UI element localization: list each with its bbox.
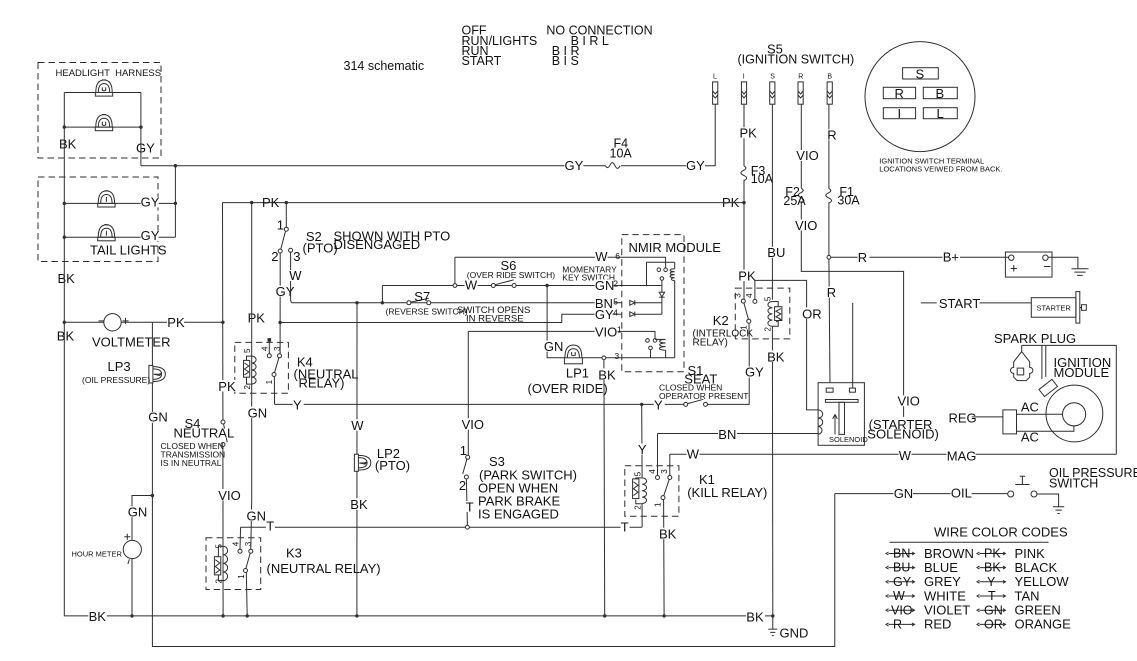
switch S2 pin1	[284, 227, 288, 231]
junction K1 BK	[662, 614, 665, 617]
svg-text:314 schematic: 314 schematic	[344, 59, 425, 73]
code PK	[977, 546, 1045, 561]
svg-text:Y: Y	[293, 398, 302, 413]
wire headlight lamp 2	[64, 126, 141, 128]
svg-text:REG: REG	[949, 410, 977, 425]
switch S4	[221, 420, 227, 447]
svg-text:BK: BK	[984, 561, 1001, 575]
solenoid terminal R	[826, 388, 833, 392]
label W S6	[465, 278, 478, 293]
svg-text:MAG: MAG	[947, 448, 977, 463]
wire solenoid second terminal	[852, 303, 854, 388]
svg-text:GN: GN	[128, 505, 148, 520]
junction headlight left	[63, 125, 66, 128]
junction GY branch	[278, 321, 281, 324]
wire W S2 pin3 down	[290, 252, 293, 302]
svg-text:W: W	[351, 418, 364, 433]
label BK bottom left	[88, 609, 107, 624]
ground GND symbol	[768, 616, 777, 636]
label B+	[943, 250, 961, 265]
svg-text:3: 3	[615, 351, 620, 361]
relay K2 contact pin4	[753, 299, 757, 303]
junction PK bus voltmeter	[221, 321, 224, 324]
wire W pin6 run	[455, 256, 622, 258]
label W LP2	[351, 418, 364, 433]
svg-text:VIO: VIO	[898, 394, 920, 409]
color codes rule	[890, 541, 1049, 543]
svg-text:PK: PK	[218, 379, 236, 394]
label Y left	[293, 398, 304, 413]
code W	[886, 588, 966, 603]
svg-text:2: 2	[613, 279, 618, 289]
svg-text:GN: GN	[544, 339, 564, 354]
svg-text:2: 2	[459, 478, 466, 493]
svg-text:W: W	[595, 249, 608, 264]
relay K4 coil	[244, 356, 257, 384]
label Y K1	[638, 442, 649, 457]
wire REG	[972, 416, 1003, 418]
wire pin S BU down to K2 coil	[771, 104, 773, 300]
svg-text:IS ENGAGED: IS ENGAGED	[478, 507, 559, 522]
relay K2 contact pin3	[741, 299, 745, 303]
svg-text:(REVERSE SWITCH): (REVERSE SWITCH)	[386, 306, 468, 316]
label BN pin5	[595, 296, 614, 311]
wire T line K3 pin4 riser	[239, 527, 242, 549]
svg-text:IS IN NEUTRAL: IS IN NEUTRAL	[161, 458, 222, 468]
wire T run K3 to K1	[241, 526, 642, 528]
svg-text:W: W	[899, 448, 912, 463]
svg-text:VIO: VIO	[795, 218, 817, 233]
label GY pin4	[595, 307, 614, 322]
label START	[939, 296, 981, 311]
lamp LP3	[149, 365, 165, 383]
connector BK LP1	[602, 356, 606, 360]
svg-text:(PTO): (PTO)	[303, 241, 338, 256]
junction GN LP1 branch	[545, 284, 548, 287]
svg-text:3: 3	[273, 346, 282, 351]
svg-text:5: 5	[764, 296, 773, 301]
svg-text:GY: GY	[141, 194, 160, 209]
label VIO S3	[461, 417, 484, 432]
code VIO	[886, 603, 970, 618]
svg-text:PK: PK	[738, 269, 756, 284]
svg-text:OR: OR	[984, 618, 1003, 632]
connector S5 pin S	[770, 82, 775, 104]
code OR	[977, 617, 1071, 632]
svg-text:START: START	[939, 296, 980, 311]
svg-text:RED: RED	[924, 617, 951, 632]
relay K4 moving contact	[272, 373, 276, 377]
svg-text:5: 5	[613, 297, 618, 307]
svg-text:10A: 10A	[610, 147, 633, 161]
svg-text:HOUR METER: HOUR METER	[72, 550, 123, 559]
code GN	[977, 603, 1061, 618]
svg-text:BK: BK	[767, 349, 785, 364]
label VIO K3 coil wire	[218, 488, 241, 503]
svg-text:2: 2	[764, 327, 773, 332]
spark plug symbol	[1011, 345, 1033, 380]
wire Y run to S1	[275, 403, 684, 405]
NMIR internal diode down	[659, 286, 664, 302]
junction Y BN branch	[640, 403, 643, 406]
wire AC upper	[1017, 413, 1063, 415]
svg-text:SPARK PLUG: SPARK PLUG	[994, 331, 1076, 346]
wire VIO down to S3	[467, 331, 469, 455]
lamp headlight 2	[95, 115, 112, 131]
svg-text:6: 6	[615, 251, 620, 261]
junction GN hourmeter branch	[151, 494, 154, 497]
svg-text:4: 4	[232, 541, 241, 546]
svg-text:4: 4	[648, 469, 657, 474]
svg-text:(KILL RELAY): (KILL RELAY)	[687, 485, 767, 500]
NMIR internal contacts upper	[657, 268, 667, 286]
lamp LP2	[354, 454, 370, 471]
label PK pin I	[740, 125, 758, 140]
wire S2 pin1	[285, 203, 287, 228]
NMIR internal diode GY	[630, 312, 662, 317]
wire K2 pin4 drop	[754, 280, 756, 299]
svg-text:TAIL LIGHTS: TAIL LIGHTS	[90, 243, 167, 258]
svg-text:DISENGAGED: DISENGAGED	[334, 237, 421, 252]
junction tail1 right	[174, 202, 177, 205]
label GN LP3 wire	[148, 410, 168, 425]
svg-text:GY: GY	[745, 364, 764, 379]
label BN solenoid	[718, 427, 737, 442]
svg-text:ORANGE: ORANGE	[1015, 617, 1072, 632]
svg-text:GN: GN	[595, 278, 615, 293]
relay K3 blade	[246, 553, 250, 569]
wire K2 coil to BK GND	[771, 326, 773, 616]
relay K3 contact pin4	[238, 549, 242, 553]
relay K1 enclosure (dashed)	[625, 466, 679, 517]
svg-text:PK: PK	[740, 125, 758, 140]
connector node B+ tap	[827, 255, 831, 259]
relay K4 enclosure (dashed)	[235, 342, 289, 393]
label R on B+ wire	[858, 250, 870, 265]
fuse F2	[798, 188, 804, 203]
svg-text:MODULE: MODULE	[1054, 365, 1110, 380]
wire GN from LP3 down	[152, 322, 834, 646]
svg-text:GY: GY	[141, 228, 160, 243]
relay K4 blade	[275, 358, 279, 373]
svg-text:5: 5	[633, 471, 642, 476]
svg-text:1: 1	[265, 379, 274, 384]
wire W S6 run to NMIR pin2	[382, 285, 622, 287]
svg-text:GN: GN	[894, 486, 914, 501]
wire K1 coil to T	[641, 504, 643, 528]
NMIR internal coil upper	[670, 269, 675, 358]
svg-text:L: L	[713, 74, 717, 81]
fuse F4	[606, 163, 621, 169]
svg-text:PK: PK	[167, 315, 185, 330]
wire tail lamp 1 GY	[64, 202, 175, 204]
wire BN K1 to solenoid	[658, 433, 819, 435]
svg-text:LP1: LP1	[566, 366, 589, 381]
hour meter M3	[123, 540, 141, 558]
switch S7	[407, 298, 431, 304]
svg-text:W: W	[289, 268, 302, 283]
label GY S2	[275, 284, 294, 299]
svg-text:4: 4	[260, 346, 269, 351]
label GY K2 pin1 wire	[745, 364, 764, 379]
terminal I box	[883, 108, 915, 119]
wire Y to K1 coil	[641, 404, 643, 477]
junction PK bus / pin I	[742, 201, 745, 204]
starter M1	[1031, 292, 1086, 324]
svg-text:BLUE: BLUE	[924, 560, 958, 575]
svg-text:I: I	[743, 74, 745, 81]
svg-text:T: T	[988, 589, 996, 603]
svg-text:GY: GY	[276, 284, 295, 299]
code BU	[886, 560, 958, 575]
relay K3 coil	[214, 546, 227, 580]
svg-text:BROWN: BROWN	[924, 546, 974, 561]
ignition module enclosure	[1046, 345, 1117, 454]
svg-text:R: R	[893, 618, 902, 632]
svg-text:S: S	[770, 74, 775, 81]
svg-text:AC: AC	[1021, 399, 1039, 414]
junction hour meter BK	[130, 614, 133, 617]
label R below B+ tap	[827, 285, 839, 300]
svg-text:RELAY): RELAY)	[299, 376, 345, 391]
svg-text:PK: PK	[984, 547, 1001, 561]
svg-text:GREEN: GREEN	[1015, 603, 1061, 618]
label GN hour meter	[128, 505, 148, 520]
NMIR module enclosure (dashed)	[622, 235, 684, 372]
svg-text:GN: GN	[148, 410, 168, 425]
wire W pin6 branch	[454, 257, 456, 284]
wire hour meter branch	[132, 496, 152, 541]
svg-text:SOLENOID: SOLENOID	[829, 435, 868, 444]
svg-text:2: 2	[215, 579, 224, 584]
solenoid plunger tee	[825, 400, 858, 435]
svg-text:+: +	[1010, 260, 1018, 275]
label voltmeter minus	[99, 320, 105, 322]
oil pressure switch S8	[1008, 476, 1037, 497]
flywheel inner	[1063, 403, 1086, 426]
svg-text:BK: BK	[89, 609, 107, 624]
svg-text:2: 2	[243, 385, 252, 390]
svg-text:BN: BN	[718, 427, 736, 442]
NMIR internal wire pin1 to lower contacts	[622, 331, 655, 338]
NMIR internal contacts lower	[646, 339, 657, 358]
terminal B box	[923, 87, 957, 98]
label voltmeter plus	[123, 318, 129, 324]
svg-text:W: W	[687, 446, 700, 461]
switch S2 pin2	[278, 249, 282, 253]
svg-text:1: 1	[653, 502, 662, 507]
svg-text:1: 1	[277, 217, 284, 232]
svg-text:4: 4	[613, 307, 618, 317]
wire BK left trunk	[64, 93, 773, 616]
code GY	[886, 574, 961, 589]
switch S3 pin2	[464, 475, 468, 479]
label T left	[266, 518, 275, 533]
wire S6 branch riser	[381, 286, 383, 303]
svg-text:SWITCH: SWITCH	[1049, 476, 1098, 490]
svg-text:BK: BK	[58, 271, 76, 286]
svg-text:BK: BK	[350, 497, 368, 512]
label GN oil	[893, 486, 913, 501]
svg-text:5: 5	[215, 544, 224, 549]
headlight harness enclosure (dashed)	[38, 63, 161, 159]
NMIR internal pin3 bus	[622, 357, 675, 359]
svg-text:T: T	[621, 519, 629, 534]
ground oil switch	[1053, 507, 1064, 514]
fuse F3	[741, 166, 747, 181]
svg-text:PK: PK	[248, 310, 266, 325]
label T K1	[621, 519, 630, 534]
wire headlight lamp 1	[64, 92, 141, 94]
tail lights enclosure (dashed)	[38, 177, 158, 262]
starter solenoid enclosure	[818, 383, 864, 446]
relay K2 coil	[768, 302, 782, 327]
svg-text:R: R	[895, 86, 904, 101]
relay K4 contact pin4	[267, 354, 271, 358]
wire oil switch to ground	[1037, 494, 1059, 507]
switch S3 blade	[463, 459, 467, 474]
HT terminal (tilted)	[1039, 379, 1058, 396]
label VIO pin1	[595, 324, 618, 339]
connector K4 pin4 stub	[268, 339, 271, 354]
label hour meter tick	[128, 559, 130, 564]
svg-text:GREY: GREY	[924, 574, 961, 589]
wire K2 mc to GY	[748, 323, 750, 339]
label hour meter plus	[124, 534, 130, 540]
wire pin I PK down	[743, 104, 745, 166]
label BK bottom right	[746, 609, 765, 624]
lamp tail 1	[98, 191, 115, 207]
wire GN to oil switch	[835, 493, 1008, 495]
label VIO pin R upper	[796, 148, 818, 163]
switch S1	[684, 399, 708, 406]
REG terminal block	[1003, 410, 1017, 434]
svg-text:VIO: VIO	[891, 603, 913, 617]
svg-text:(PTO): (PTO)	[375, 458, 410, 473]
svg-text:−: −	[1044, 259, 1052, 274]
junction PK S2	[285, 201, 288, 204]
svg-text:OR: OR	[802, 306, 822, 321]
wire K1 pin3 drop	[669, 454, 671, 475]
relay K2 enclosure (dashed)	[735, 288, 790, 339]
connector S5 pin B	[827, 82, 832, 104]
svg-text:10A: 10A	[751, 172, 774, 186]
switch S2 pin3	[289, 248, 293, 252]
svg-text:GY: GY	[565, 158, 584, 173]
connector S5 pin R	[798, 82, 803, 104]
svg-text:Y: Y	[987, 575, 996, 589]
svg-text:Y: Y	[638, 442, 647, 457]
label VIO pin R lower	[795, 218, 817, 233]
terminal S box	[903, 68, 939, 79]
switch S2 blade	[281, 231, 286, 249]
svg-text:(OIL PRESSURE): (OIL PRESSURE)	[82, 375, 150, 385]
wire GN branch down to LP1	[547, 286, 564, 358]
svg-text:BK: BK	[746, 609, 764, 624]
relay K3 enclosure (dashed)	[206, 538, 261, 590]
wire GY S2 pin2 to K4 pin3	[279, 253, 282, 354]
svg-text:VIO: VIO	[796, 148, 818, 163]
wire S3 pin2 to T run	[466, 479, 467, 525]
label BK K2	[767, 349, 786, 364]
label W pin6	[595, 249, 608, 264]
code BK	[977, 560, 1057, 575]
svg-text:SOLENOID): SOLENOID)	[867, 427, 939, 442]
wire pin B down to solenoid	[828, 104, 830, 188]
junction BK LP1 bottom	[603, 614, 606, 617]
code T	[977, 588, 1040, 603]
label GN LP1	[544, 339, 564, 354]
svg-text:GY: GY	[136, 141, 155, 156]
relay K4 contact pin3	[278, 354, 282, 358]
svg-text:PK: PK	[262, 195, 280, 210]
label BK LP1	[598, 367, 617, 382]
svg-text:GN: GN	[984, 603, 1003, 617]
label W K1	[687, 446, 700, 461]
terminal R box	[883, 87, 915, 98]
svg-text:B I S: B I S	[552, 54, 579, 68]
label GY tail1	[141, 194, 160, 209]
svg-text:WHITE: WHITE	[924, 588, 966, 603]
wire K2 pin4 branch to OR	[755, 280, 818, 410]
label PK K4 coil wire	[247, 310, 265, 325]
junction GY main	[174, 164, 177, 167]
wire GY run to NMIR pin4	[280, 314, 622, 322]
svg-text:LP3: LP3	[108, 359, 131, 374]
svg-text:L: L	[937, 106, 944, 121]
label OIL	[951, 486, 972, 501]
junction PK K4 coil	[250, 201, 253, 204]
svg-text:5: 5	[243, 348, 252, 353]
wire W K1 to MAG	[670, 453, 1117, 455]
svg-text:R: R	[827, 128, 836, 143]
wire VIO NMIR pin1	[468, 330, 622, 332]
svg-text:K3: K3	[286, 546, 302, 561]
wire spark plug HT lead	[1022, 345, 1046, 379]
label R pin B	[827, 128, 839, 143]
relay K3 contact pin3	[249, 549, 253, 553]
wire K1 pin4 drop	[657, 434, 659, 476]
NMIR internal wire pin2	[622, 285, 662, 287]
NMIR internal bus BN-GY	[661, 303, 663, 314]
label NEUTRAL	[174, 426, 235, 441]
svg-text:T: T	[266, 518, 274, 533]
svg-text:B: B	[827, 74, 832, 81]
label GN K4 coil wire	[247, 406, 267, 421]
solenoid coil arcs	[818, 410, 823, 435]
svg-text:BK: BK	[598, 367, 616, 382]
relay K1 moving contact	[661, 496, 665, 500]
S5 terminal view circle	[865, 42, 975, 152]
label PK above K2	[738, 269, 756, 284]
wire BK LP1 down	[603, 360, 606, 616]
switch S3 pin1	[466, 455, 470, 459]
label GN pin2	[595, 278, 615, 293]
svg-text:OPERATOR PRESENT: OPERATOR PRESENT	[659, 391, 748, 401]
svg-text:LOCATIONS VEIWED FROM BACK.: LOCATIONS VEIWED FROM BACK.	[879, 165, 1002, 174]
label PK voltmeter wire	[167, 315, 185, 330]
svg-text:3: 3	[244, 541, 253, 546]
svg-text:(OVER RIDE): (OVER RIDE)	[528, 381, 608, 396]
label W S2	[289, 268, 302, 283]
ground battery	[1072, 269, 1089, 276]
svg-text:BK: BK	[57, 329, 75, 344]
wire K3 mc to BK	[245, 572, 248, 616]
svg-text:BU: BU	[767, 245, 785, 260]
label VIO near REG corner	[898, 394, 920, 409]
svg-text:2: 2	[271, 249, 278, 264]
code R	[886, 617, 951, 632]
